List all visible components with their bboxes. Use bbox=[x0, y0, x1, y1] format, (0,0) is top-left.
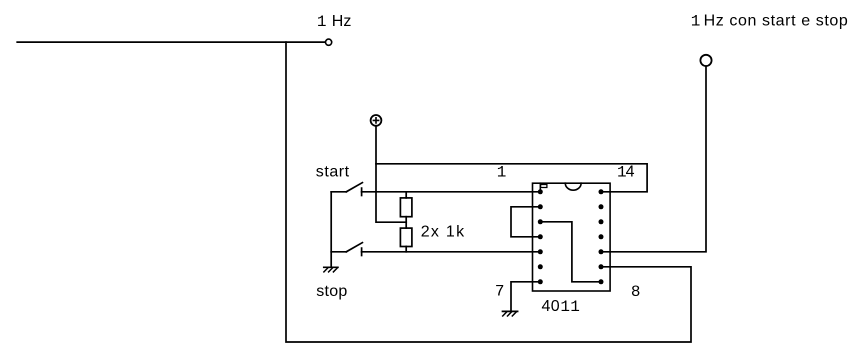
svg-text:2x 1k: 2x 1k bbox=[421, 223, 466, 240]
svg-text:1: 1 bbox=[497, 163, 507, 181]
svg-text:7: 7 bbox=[495, 282, 505, 300]
svg-text:4: 4 bbox=[626, 163, 635, 180]
svg-text:Hz con start e stop: Hz con start e stop bbox=[704, 13, 849, 30]
svg-text:11: 11 bbox=[560, 298, 580, 316]
svg-text:stop: stop bbox=[316, 283, 347, 300]
svg-text:1: 1 bbox=[691, 13, 701, 31]
svg-text:1: 1 bbox=[317, 13, 327, 31]
svg-text:8: 8 bbox=[631, 283, 641, 301]
svg-text:40: 40 bbox=[542, 298, 561, 315]
svg-text:Hz: Hz bbox=[332, 13, 352, 30]
svg-text:start: start bbox=[316, 163, 350, 180]
